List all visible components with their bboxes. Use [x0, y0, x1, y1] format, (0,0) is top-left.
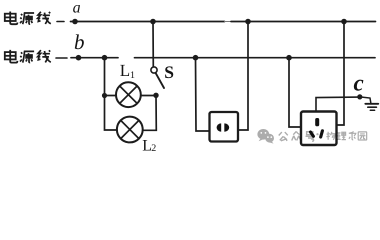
svg-text:2: 2 [151, 143, 156, 151]
svg-text:1: 1 [130, 70, 135, 81]
svg-text:L: L [120, 61, 130, 80]
svg-text:c: c [354, 71, 364, 96]
svg-text:a: a [73, 0, 81, 17]
svg-text:S: S [164, 62, 174, 82]
svg-text:b: b [74, 30, 85, 54]
